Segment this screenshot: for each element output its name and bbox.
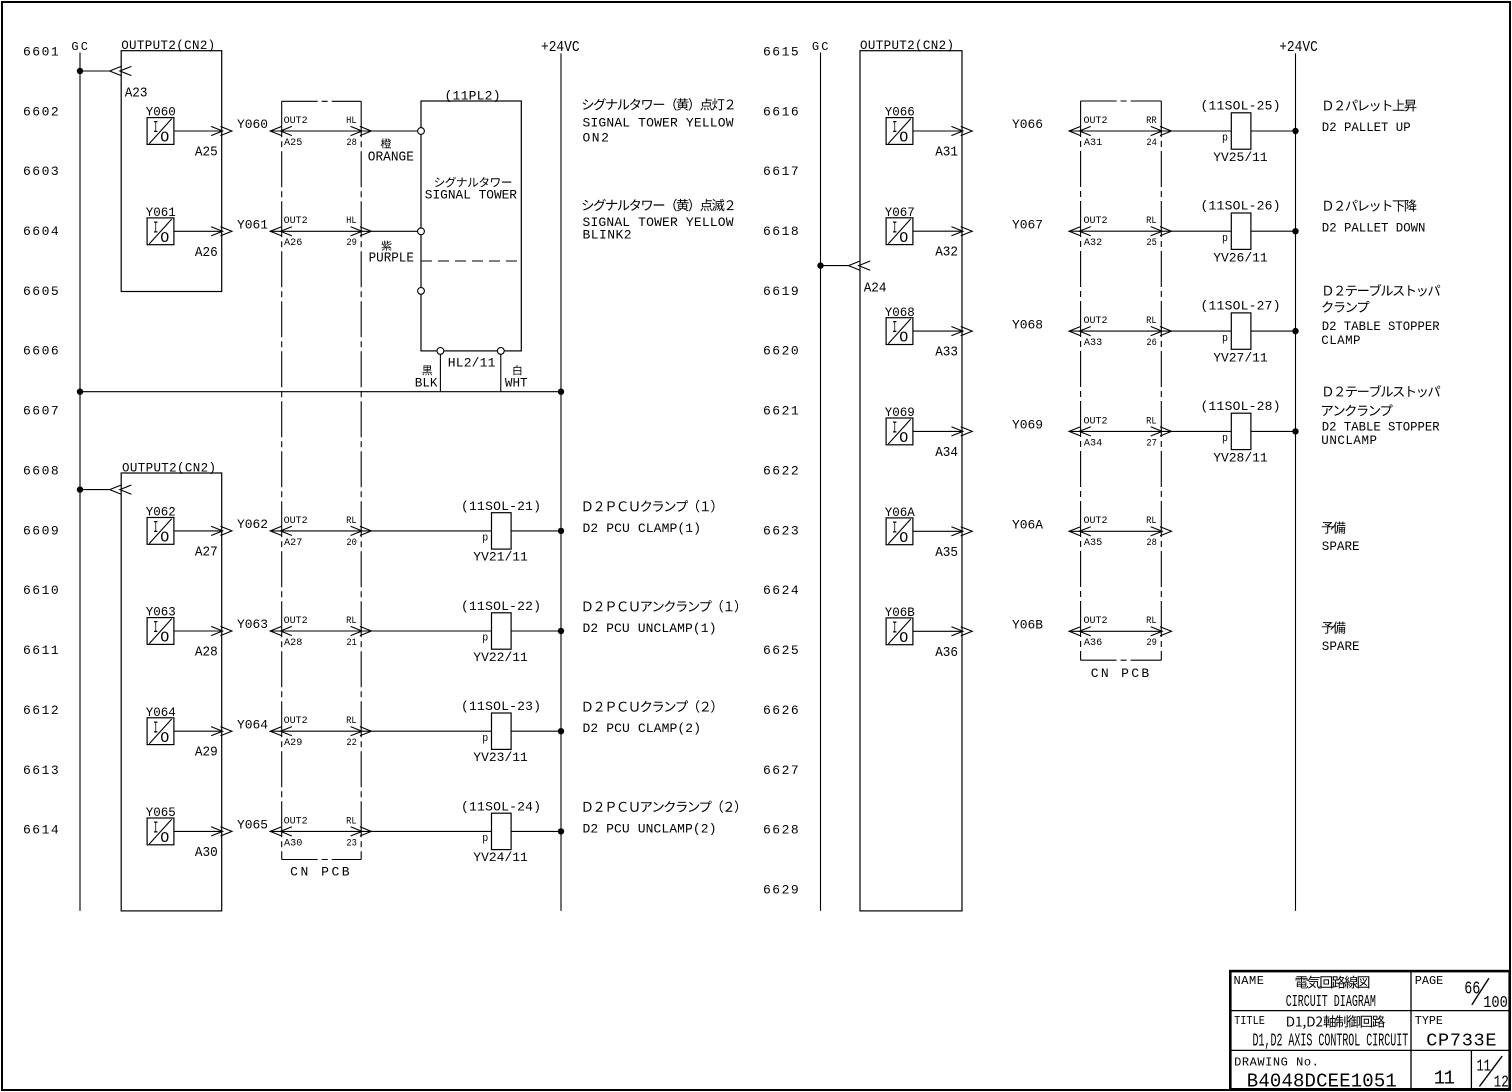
wire Y064 to OUTPUT2 edge [174, 730, 223, 732]
label YV28/11 [1213, 451, 1268, 466]
svg-text:Y065: Y065 [237, 818, 268, 833]
net label Y064 [237, 717, 268, 732]
svg-text:CN PCB: CN PCB [1091, 666, 1150, 681]
pin label RL/29 (CN PCB) [1146, 616, 1157, 649]
net label Y06B [1012, 618, 1043, 633]
node line-number 6612 [23, 703, 59, 718]
pin label A25 (OUTPUT2) [195, 145, 218, 161]
solenoid YV25/11 [1222, 113, 1251, 149]
wire CN PCB to YV24/11 [270, 830, 491, 832]
label YV27/11 [1213, 350, 1268, 365]
title block frame [1230, 971, 1509, 1089]
wire CN PCB to YV28/11 [1069, 430, 1231, 432]
label YV22/11 [473, 650, 528, 665]
svg-text:A25: A25 [195, 145, 218, 161]
svg-text:CP733E: CP733E [1426, 1031, 1496, 1052]
wire GC to lower-left connector [80, 489, 110, 491]
wire Y06B through CN PCB [1069, 630, 1162, 632]
title block page 66 [1464, 980, 1480, 1000]
svg-text:WHT: WHT [505, 375, 528, 390]
svg-text:D2 TABLE STOPPER: D2 TABLE STOPPER [1322, 420, 1440, 434]
arrow into CN PCB (Y064) [270, 727, 292, 736]
svg-text:RL: RL [346, 816, 357, 827]
lamp signal tower 11PL2 box [421, 101, 521, 351]
arrow out of OUTPUT2 (Y066) [951, 126, 972, 135]
junction dot +24VC/YV24/11 [558, 828, 564, 834]
node line-number 6603 [23, 164, 59, 179]
svg-text:Y063: Y063 [237, 617, 268, 632]
pin label A34 (OUTPUT2) [935, 445, 958, 461]
title block TITLE [1234, 1014, 1265, 1028]
wire Y062 to OUTPUT2 edge [174, 530, 223, 532]
arrow out of CN PCB (Y06A) [1151, 527, 1172, 536]
svg-text:(11SOL-25): (11SOL-25) [1201, 99, 1281, 114]
arrow out of CN PCB (Y066) [1151, 126, 1172, 135]
wire GC to connector A23 [80, 70, 110, 72]
node line-number 6627 [763, 763, 799, 778]
pin label A27 (OUTPUT2) [195, 544, 218, 560]
svg-text:RL: RL [346, 716, 357, 727]
wire 0V return bus [80, 391, 561, 393]
svg-text:OUT2: OUT2 [1084, 116, 1108, 127]
terminal Y060 (signal tower) [418, 128, 425, 135]
svg-text:I: I [892, 319, 897, 338]
title block sheet slash [1479, 1056, 1502, 1086]
pin label OUT2/A33 (CN PCB) [1084, 316, 1108, 349]
svg-text:RL: RL [346, 616, 357, 627]
net label Y061 [237, 218, 268, 233]
arrow out of OUTPUT2 (Y064) [211, 727, 232, 736]
node line-number 6623 [763, 523, 799, 538]
svg-text:TITLE: TITLE [1234, 1014, 1265, 1028]
arrow into connector A23 [110, 66, 132, 75]
svg-text:28: 28 [1146, 537, 1157, 549]
svg-text:A36: A36 [935, 645, 958, 661]
svg-text:6604: 6604 [23, 224, 59, 239]
I/O driver label Y068 [885, 305, 915, 320]
arrow out of OUTPUT2 (Y067) [951, 227, 972, 236]
svg-text:HL2/11: HL2/11 [448, 356, 496, 371]
svg-text:A36: A36 [1084, 637, 1102, 649]
signal tower internal dashed divider [421, 260, 521, 262]
node line-number 6619 [763, 284, 799, 299]
net label Y068 [1012, 317, 1043, 332]
wire YV27/11 to +24VC [1251, 330, 1296, 332]
pin label A31 (OUTPUT2) [935, 145, 958, 161]
svg-text:p: p [1222, 133, 1228, 145]
node line-number 6608 [23, 464, 59, 479]
svg-text:6615: 6615 [763, 44, 799, 59]
svg-text:D1,D2 AXIS CONTROL CIRCUIT: D1,D2 AXIS CONTROL CIRCUIT [1253, 1032, 1409, 1052]
label 橙 ORANGE [368, 138, 414, 165]
svg-text:6624: 6624 [763, 583, 799, 598]
svg-text:A23: A23 [125, 86, 148, 102]
label 紫 PURPLE [369, 241, 414, 267]
svg-text:6619: 6619 [763, 284, 799, 299]
pin label A35 (OUTPUT2) [935, 545, 958, 561]
I/O driver label Y06B [885, 605, 915, 620]
svg-text:CIRCUIT DIAGRAM: CIRCUIT DIAGRAM [1286, 993, 1376, 1012]
svg-text:O: O [899, 630, 908, 647]
pin label OUT2/A26 (CN PCB) [284, 216, 308, 249]
arrow into CN PCB (Y060) [270, 126, 292, 135]
connector OUTPUT2(CN2) box A23 [121, 51, 222, 292]
svg-text:GC: GC [812, 40, 829, 54]
solenoid YV27/11 [1222, 313, 1251, 349]
svg-text:B4048DCEE1051: B4048DCEE1051 [1247, 1071, 1397, 1092]
svg-text:6617: 6617 [763, 164, 799, 179]
svg-text:OUT2: OUT2 [1084, 216, 1108, 227]
title block DRAWING No. [1234, 1056, 1319, 1070]
svg-text:OUT2: OUT2 [1084, 516, 1108, 527]
wire YV25/11 to +24VC [1251, 130, 1296, 132]
svg-text:A29: A29 [195, 745, 218, 761]
I/O driver label Y060 [146, 105, 176, 120]
svg-text:Y064: Y064 [237, 717, 268, 732]
node line-number 6615 [763, 44, 799, 59]
title block D1,D2 AXIS CONTROL CIRCUIT [1253, 1032, 1409, 1052]
node line-number 6616 [763, 104, 799, 119]
svg-text:p: p [482, 833, 488, 845]
arrow into CN PCB (Y06A) [1069, 527, 1091, 536]
svg-text:p: p [1222, 433, 1228, 445]
wire YV22/11 to +24VC [511, 630, 561, 632]
svg-text:(11SOL-26): (11SOL-26) [1201, 199, 1281, 214]
svg-text:YV25/11: YV25/11 [1213, 150, 1268, 165]
svg-text:O: O [899, 530, 908, 547]
I/O driver Y063 [147, 618, 174, 647]
I/O driver label Y063 [146, 605, 176, 620]
svg-text:D2 PCU UNCLAMP(2): D2 PCU UNCLAMP(2) [583, 821, 717, 836]
pin label OUT2/A35 (CN PCB) [1084, 516, 1108, 549]
svg-text:6608: 6608 [23, 464, 59, 479]
arrow into CN PCB (Y062) [270, 526, 292, 535]
svg-text:O: O [160, 630, 169, 647]
wire YV26/11 to +24VC [1251, 230, 1296, 232]
arrow out of CN PCB (Y068) [1151, 327, 1172, 336]
svg-text:A35: A35 [1084, 537, 1102, 549]
svg-text:A31: A31 [935, 145, 958, 161]
I/O driver label Y065 [146, 805, 176, 820]
svg-text:PURPLE: PURPLE [369, 252, 414, 267]
svg-text:p: p [1222, 333, 1228, 345]
svg-text:(11SOL-28): (11SOL-28) [1201, 399, 1281, 414]
pin label A24 [864, 281, 887, 297]
svg-text:A28: A28 [195, 645, 218, 661]
description D2 TABLE STOPPER CLAMP [1321, 284, 1440, 348]
wire CN PCB to YV23/11 [270, 730, 491, 732]
pin label RR/24 (CN PCB) [1146, 116, 1157, 149]
I/O driver Y064 [147, 718, 174, 747]
label シグナルタワー SIGNAL TOWER [425, 177, 517, 203]
junction dot +24VC/YV25/11 [1292, 128, 1298, 134]
svg-text:YV27/11: YV27/11 [1213, 350, 1268, 365]
svg-text:A33: A33 [935, 345, 958, 361]
node line-number 6601 [23, 44, 59, 59]
pin label RL/21 (CN PCB) [346, 616, 357, 649]
svg-text:A26: A26 [195, 245, 218, 261]
svg-text:I: I [153, 619, 158, 638]
arrow into CN PCB (Y066) [1069, 126, 1091, 135]
description SPARE (Y06B) [1322, 622, 1360, 654]
label YV25/11 [1213, 150, 1268, 165]
description D2 PCU UNCLAMP(2) [583, 800, 739, 836]
title block CIRCUIT DIAGRAM [1286, 993, 1376, 1012]
title block D1,D2軸制御回路 [1287, 1015, 1385, 1029]
net label +24VC (left) [541, 40, 580, 56]
wire YV28/11 to +24VC [1251, 430, 1296, 432]
svg-text:6621: 6621 [763, 404, 799, 419]
svg-text:BLINK2: BLINK2 [583, 228, 632, 243]
terminal spare (signal tower) [418, 288, 425, 295]
svg-text:RL: RL [1146, 516, 1157, 527]
svg-text:A35: A35 [935, 545, 958, 561]
wire Y065 to OUTPUT2 edge [174, 830, 223, 832]
node line-number 6602 [23, 104, 59, 119]
svg-text:23: 23 [346, 837, 357, 849]
svg-text:6606: 6606 [23, 344, 59, 359]
svg-text:A32: A32 [1084, 237, 1102, 249]
svg-text:D2 PCU CLAMP(1): D2 PCU CLAMP(1) [583, 521, 702, 536]
wire Y061 to signal tower [270, 230, 417, 232]
svg-text:O: O [160, 230, 169, 247]
svg-text:26: 26 [1146, 337, 1157, 349]
arrow out of OUTPUT2 (Y068) [951, 327, 972, 336]
node line-number 6628 [763, 823, 799, 838]
svg-text:I: I [892, 519, 897, 538]
title block B4048DCEE1051 [1247, 1071, 1397, 1092]
svg-text:6618: 6618 [763, 224, 799, 239]
svg-text:I: I [153, 119, 158, 138]
junction dot GC/A23 [77, 68, 83, 74]
title block sheet 11 [1434, 1068, 1455, 1090]
svg-text:A30: A30 [284, 837, 302, 849]
svg-text:(11SOL-22): (11SOL-22) [461, 599, 541, 614]
wire CN PCB to YV21/11 [270, 530, 491, 532]
svg-text:RL: RL [346, 516, 357, 527]
label OUTPUT2(CN2) lower-left [122, 461, 216, 475]
svg-text:D2 PCU CLAMP(2): D2 PCU CLAMP(2) [583, 721, 702, 736]
I/O driver label Y069 [885, 405, 915, 420]
I/O driver label Y06A [885, 505, 915, 520]
I/O driver Y067 [886, 218, 913, 247]
svg-text:RL: RL [1146, 616, 1157, 627]
svg-text:O: O [160, 530, 169, 547]
arrow out of OUTPUT2 (Y063) [211, 626, 232, 635]
svg-text:A26: A26 [284, 237, 302, 249]
svg-text:I: I [153, 519, 158, 538]
I/O driver Y065 [147, 818, 174, 847]
title block page 100 [1483, 994, 1508, 1013]
svg-text:12: 12 [1494, 1074, 1509, 1092]
svg-text:I: I [892, 119, 897, 138]
junction dot +24VC/YV28/11 [1292, 428, 1298, 434]
wire Y066 to OUTPUT2 edge [913, 130, 963, 132]
svg-text:p: p [482, 733, 488, 745]
svg-text:(11SOL-23): (11SOL-23) [461, 699, 541, 714]
I/O driver Y061 [147, 218, 174, 247]
svg-text:GC: GC [71, 40, 88, 54]
node line-number 6618 [763, 224, 799, 239]
net label GC (left) [71, 40, 88, 54]
svg-text:I: I [892, 420, 897, 439]
svg-text:A33: A33 [1084, 337, 1102, 349]
description SPARE (Y06A) [1322, 522, 1360, 554]
arrow out of OUTPUT2 (Y060) [211, 126, 232, 135]
pin label RL/26 (CN PCB) [1146, 316, 1157, 349]
svg-text:6603: 6603 [23, 164, 59, 179]
net label Y066 [1012, 117, 1043, 132]
description D2 PCU UNCLAMP(1) [583, 600, 739, 636]
label (11SOL-28) [1201, 399, 1281, 414]
node line-number 6606 [23, 344, 59, 359]
label (11PL2) [445, 89, 501, 104]
node line-number 6605 [23, 284, 59, 299]
svg-text:OUT2: OUT2 [1084, 616, 1108, 627]
svg-text:OUT2: OUT2 [284, 716, 308, 727]
junction dot +24VC/YV21/11 [558, 528, 564, 534]
wire Y061 to OUTPUT2 edge [174, 230, 223, 232]
solenoid YV23/11 [482, 713, 511, 749]
junction dot GC/bus [77, 389, 83, 395]
terminal Y061 (signal tower) [418, 228, 425, 235]
wire Y06A to OUTPUT2 edge [913, 530, 963, 532]
svg-text:25: 25 [1146, 237, 1157, 249]
node line-number 6607 [23, 404, 59, 419]
pin label A30 (OUTPUT2) [195, 845, 218, 861]
svg-text:UNCLAMP: UNCLAMP [1321, 434, 1377, 448]
node line-number 6611 [23, 643, 59, 658]
svg-text:6627: 6627 [763, 763, 799, 778]
I/O driver Y062 [147, 518, 174, 547]
svg-text:A25: A25 [284, 137, 302, 149]
wire Y067 to OUTPUT2 edge [913, 230, 963, 232]
arrow out of OUTPUT2 (Y069) [951, 427, 972, 436]
arrow out of CN PCB (Y069) [1151, 427, 1172, 436]
description D2 TABLE STOPPER UNCLAMP [1321, 385, 1440, 448]
wire Y069 to OUTPUT2 edge [913, 430, 963, 432]
node line-number 6622 [763, 464, 799, 479]
junction dot +24VC/YV23/11 [558, 728, 564, 734]
svg-text:OUT2: OUT2 [284, 616, 308, 627]
svg-text:Y061: Y061 [237, 218, 268, 233]
svg-text:A30: A30 [195, 845, 218, 861]
description D2 PALLET DOWN [1322, 199, 1426, 235]
wire CN PCB to YV26/11 [1069, 230, 1231, 232]
arrow out of OUTPUT2 (Y061) [211, 227, 232, 236]
pin label A32 (OUTPUT2) [935, 245, 958, 261]
arrow into CN PCB (Y06B) [1069, 627, 1091, 636]
arrow out of CN PCB (Y06B) [1151, 627, 1172, 636]
wire Y068 to OUTPUT2 edge [913, 330, 963, 332]
arrow out of CN PCB (Y064) [351, 727, 372, 736]
wire YV21/11 to +24VC [511, 530, 561, 532]
arrow out of CN PCB (Y065) [351, 827, 372, 836]
arrow into lower-left connector [110, 485, 132, 494]
I/O driver label Y066 [885, 105, 915, 120]
junction dot +24VC/YV27/11 [1292, 328, 1298, 334]
svg-text:6601: 6601 [23, 44, 59, 59]
svg-text:SPARE: SPARE [1322, 639, 1360, 654]
svg-text:YV28/11: YV28/11 [1213, 451, 1268, 466]
pin label A23 [125, 86, 148, 102]
svg-text:YV24/11: YV24/11 [473, 850, 528, 865]
net label Y067 [1012, 217, 1043, 232]
connector CN PCB box (right) [1081, 101, 1162, 660]
svg-text:Y06A: Y06A [1012, 518, 1043, 533]
svg-text:Y062: Y062 [237, 517, 268, 532]
label (11SOL-22) [461, 599, 541, 614]
pin label OUT2/A29 (CN PCB) [284, 716, 308, 749]
svg-text:27: 27 [1146, 437, 1157, 449]
svg-text:Y060: Y060 [237, 117, 268, 132]
node line-number 6620 [763, 344, 799, 359]
solenoid YV21/11 [482, 513, 511, 549]
label (11SOL-27) [1201, 299, 1281, 314]
svg-text:I: I [153, 820, 158, 839]
svg-text:Y067: Y067 [1012, 217, 1043, 232]
pin label OUT2/A28 (CN PCB) [284, 616, 308, 649]
I/O driver Y069 [886, 418, 913, 447]
svg-text:6613: 6613 [23, 763, 59, 778]
pin label RL/22 (CN PCB) [346, 716, 357, 749]
wire BLK [439, 354, 441, 391]
svg-text:p: p [1222, 233, 1228, 245]
wire GC rail (left) [79, 53, 81, 911]
pin label A36 (OUTPUT2) [935, 645, 958, 661]
svg-text:6602: 6602 [23, 104, 59, 119]
pin label OUT2/A31 (CN PCB) [1084, 116, 1108, 149]
wire +24VC rail (right) [1295, 53, 1297, 911]
junction dot +24VC/YV22/11 [558, 628, 564, 634]
svg-text:(11SOL-27): (11SOL-27) [1201, 299, 1281, 314]
wire YV24/11 to +24VC [511, 830, 561, 832]
svg-text:OUT2: OUT2 [1084, 416, 1108, 427]
wire YV23/11 to +24VC [511, 730, 561, 732]
svg-text:I: I [153, 719, 158, 738]
solenoid YV22/11 [482, 613, 511, 649]
svg-text:D2 PALLET UP: D2 PALLET UP [1322, 120, 1411, 135]
arrow out of CN PCB (Y062) [351, 526, 372, 535]
svg-text:RL: RL [1146, 316, 1157, 327]
arrow into connector A24 [849, 261, 871, 270]
arrow into CN PCB (Y069) [1069, 427, 1091, 436]
node line-number 6610 [23, 583, 59, 598]
svg-text:DRAWING No.: DRAWING No. [1234, 1056, 1319, 1070]
net label Y065 [237, 818, 268, 833]
svg-text:24: 24 [1146, 137, 1157, 149]
arrow out of CN PCB (Y060) [351, 126, 372, 135]
svg-text:CLAMP: CLAMP [1321, 334, 1360, 348]
label OUTPUT2(CN2) right [860, 39, 954, 53]
pin label OUT2/A32 (CN PCB) [1084, 216, 1108, 249]
pin label RL/23 (CN PCB) [346, 816, 357, 849]
arrow out of OUTPUT2 (Y065) [211, 827, 232, 836]
label YV21/11 [473, 550, 528, 565]
svg-text:1: 1 [1444, 1068, 1455, 1090]
svg-text:A27: A27 [284, 537, 302, 549]
svg-text:6612: 6612 [23, 703, 59, 718]
svg-text:YV23/11: YV23/11 [473, 750, 528, 765]
svg-text:6605: 6605 [23, 284, 59, 299]
svg-text:CN PCB: CN PCB [290, 865, 350, 880]
solenoid YV24/11 [482, 813, 511, 849]
label CN PCB (right) [1091, 666, 1150, 681]
label YV26/11 [1213, 250, 1268, 265]
svg-text:6610: 6610 [23, 583, 59, 598]
svg-text:6611: 6611 [23, 643, 59, 658]
svg-text:O: O [160, 830, 169, 847]
